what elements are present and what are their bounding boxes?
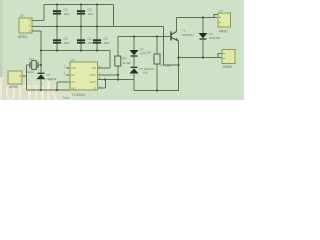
wire column C2/C4	[80, 5, 82, 51]
capacitor C3	[53, 39, 61, 43]
wire base net y36	[118, 36, 171, 38]
capacitor C5	[93, 39, 101, 43]
wire D1 column lower	[40, 79, 42, 90]
svg-text:Kxxx: Kxxx	[63, 96, 70, 100]
node lower rail C5	[96, 49, 98, 51]
transformer C1	[218, 13, 231, 27]
svg-text:100n: 100n	[88, 12, 95, 16]
node bottom right R2	[156, 89, 158, 91]
wire top rail	[44, 4, 114, 6]
svg-text:10k: 10k	[143, 71, 148, 75]
svg-text:1k 2W: 1k 2W	[123, 61, 131, 65]
svg-text:OUT: OUT	[90, 80, 97, 84]
wire diode chain column	[133, 37, 135, 91]
svg-text:XT1: XT1	[29, 57, 35, 61]
wire riser to transformer A pin1	[32, 5, 44, 21]
wire drop x113	[113, 5, 115, 28]
node mid rail C5	[96, 25, 98, 27]
svg-text:U?: U?	[71, 59, 75, 63]
pin ticks A1	[29, 20, 31, 31]
svg-text:A?: A?	[20, 14, 24, 18]
wire bottom right run	[134, 90, 179, 92]
node bottom left D1	[40, 89, 42, 91]
wire transformer C pin hook	[214, 15, 218, 18]
svg-text:1N: 1N	[48, 78, 52, 82]
wire IC out pin y75	[98, 74, 118, 76]
node base net diode chain	[133, 35, 135, 37]
pin ticks B1	[19, 76, 21, 77]
svg-text:ARB3: ARB3	[9, 85, 18, 89]
capacitor C2	[77, 10, 85, 14]
crystal Y1	[30, 61, 39, 70]
transformer A1	[19, 18, 32, 33]
watermark glow	[0, 81, 76, 111]
svg-text:TC4420: TC4420	[71, 92, 86, 97]
pin ticks C1t	[219, 17, 221, 23]
diode D1	[37, 73, 46, 80]
node crystal junction	[40, 64, 42, 66]
svg-text:VS: VS	[92, 66, 96, 70]
diode D3	[130, 67, 139, 74]
capacitor C1	[53, 10, 61, 14]
wire mid rail	[32, 26, 164, 28]
resistor R2	[154, 54, 160, 64]
wire column C1/C3	[56, 5, 58, 51]
transformer B1	[8, 71, 22, 84]
node mid rail C1	[56, 25, 58, 27]
wire crystal riser	[26, 65, 28, 90]
svg-text:IN: IN	[72, 73, 75, 77]
node out y75	[117, 74, 119, 76]
svg-text:D? 1N4148: D? 1N4148	[140, 67, 155, 71]
wire IC left stubs	[66, 68, 70, 75]
wire R1 column	[117, 37, 119, 80]
node lower rail C3	[56, 49, 58, 51]
wire corner to y65	[164, 27, 179, 66]
transformer D1	[222, 50, 235, 64]
node y17 D4	[202, 16, 204, 18]
wire IC out pin y79	[98, 79, 134, 81]
svg-text:4MHz: 4MHz	[27, 70, 35, 74]
wire IC pin y88 jog	[98, 80, 106, 89]
wire column C5	[96, 5, 98, 51]
svg-text:BDP900U: BDP900U	[182, 33, 194, 37]
transistor T1	[171, 32, 179, 42]
diode D4	[199, 33, 208, 40]
node out y79 b	[117, 78, 119, 80]
svg-text:100n: 100n	[104, 41, 111, 45]
wire transformer A pin3 down	[32, 31, 41, 73]
node y65 emitter	[177, 64, 179, 66]
svg-text:T?: T?	[219, 10, 223, 14]
node top rail C5	[96, 3, 98, 5]
node y57 emitter	[177, 56, 179, 58]
wire y57 to transformer D	[179, 54, 223, 58]
svg-text:ARB2: ARB2	[223, 65, 232, 69]
wire bottom left run	[27, 89, 71, 91]
wire transformer B pin	[22, 75, 27, 77]
node out y79 a	[104, 78, 106, 80]
svg-text:R? 10k: R? 10k	[161, 64, 171, 68]
svg-text:100n: 100n	[64, 12, 71, 16]
svg-text:12V: 12V	[140, 52, 145, 56]
diode D2	[130, 50, 139, 57]
svg-text:MUR150: MUR150	[209, 36, 220, 40]
svg-text:OUT: OUT	[90, 73, 97, 77]
svg-text:ARB3: ARB3	[18, 35, 27, 39]
svg-text:ARB2: ARB2	[219, 30, 228, 34]
wire emitter column	[178, 41, 180, 91]
wire D4 column	[202, 18, 204, 58]
svg-text:1.2M: 1.2M	[145, 51, 152, 55]
node top rail C2	[80, 3, 82, 5]
pin ticks D1t	[223, 53, 225, 59]
node lower rail C4	[80, 49, 82, 51]
wire crystal leads	[27, 64, 42, 66]
svg-text:IN: IN	[72, 80, 75, 84]
wire IC pin y82	[57, 82, 70, 90]
node y57 D4	[202, 56, 204, 58]
wire lower rail	[41, 50, 110, 52]
node top rail C1	[56, 3, 58, 5]
node mid rail C2	[80, 25, 82, 27]
resistor R1	[115, 56, 121, 66]
node rail x41	[40, 49, 42, 51]
node bottom left x57	[56, 89, 58, 91]
op-amp U1	[70, 62, 98, 90]
svg-text:T1: T1	[182, 29, 186, 33]
capacitor C4	[77, 39, 85, 43]
wire R2 column	[156, 37, 158, 91]
wire collector up and y17 rail	[177, 18, 218, 32]
wire rail drop to IC	[98, 51, 110, 69]
svg-text:100n: 100n	[64, 41, 71, 45]
node base net R2	[156, 35, 158, 37]
svg-text:100n: 100n	[88, 41, 95, 45]
